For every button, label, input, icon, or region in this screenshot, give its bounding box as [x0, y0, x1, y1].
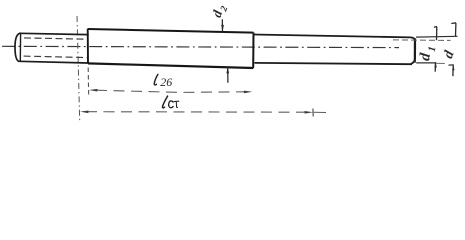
svg-text:26: 26 [160, 75, 172, 89]
